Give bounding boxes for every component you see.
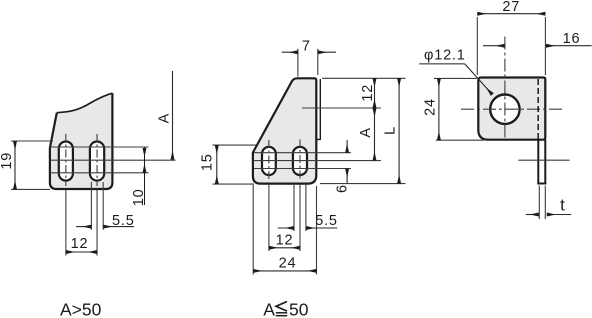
svg-text:50: 50 bbox=[289, 300, 309, 318]
slot hole 1 (middle view) bbox=[262, 147, 276, 175]
slot hole 2 (left view) bbox=[90, 142, 104, 181]
svg-text:A: A bbox=[358, 127, 374, 137]
slot 1 centerline (middle) bbox=[268, 140, 270, 180]
hole bottom reference line (middle) bbox=[254, 168, 351, 170]
slot 2 centerline (middle) bbox=[299, 140, 301, 181]
hole top reference line bbox=[50, 146, 148, 148]
phi 12.1 leader arrow bbox=[465, 64, 493, 95]
flange inner edge line bbox=[319, 79, 321, 140]
left bracket body fill bbox=[50, 93, 113, 189]
dim 5.5 right arrow with tail bbox=[103, 226, 134, 228]
dim 15 top extension bbox=[213, 144, 257, 146]
dim 12 extension left (slot1 center) bbox=[65, 190, 67, 256]
dim 16 right arrow with tail bbox=[546, 45, 592, 47]
svg-text:A: A bbox=[157, 113, 173, 123]
horizontal centerline bbox=[461, 108, 563, 110]
dim 24 line (right view) bbox=[438, 78, 440, 140]
dim 15 line bbox=[216, 145, 218, 184]
svg-text:12: 12 bbox=[276, 232, 294, 248]
dim 7 left arrow bbox=[282, 51, 298, 53]
slot hole 1 (left view) bbox=[59, 142, 73, 181]
bottom extension: slot2 center (middle) bbox=[299, 185, 301, 251]
bend hidden dashed line bbox=[537, 79, 539, 139]
dim 16 left arrow bbox=[483, 45, 505, 47]
dim 7 right extension bbox=[317, 49, 319, 75]
dim 5.5 left arrow (middle) bbox=[278, 227, 294, 229]
hole circle bbox=[490, 95, 519, 124]
dim 12 extension right (slot2 center) bbox=[96, 190, 98, 256]
dim 5.5 extension right (slot2 right edge) bbox=[102, 182, 104, 230]
svg-text:L: L bbox=[383, 126, 399, 135]
dim t left extension bbox=[538, 186, 540, 220]
dim 24 bottom extension (right view) bbox=[436, 139, 484, 141]
svg-text:A: A bbox=[263, 300, 275, 318]
svg-text:24: 24 bbox=[279, 256, 297, 272]
right bottom extension line (middle) bbox=[320, 183, 406, 185]
dim 6 lower arrow bbox=[346, 169, 348, 184]
svg-text:10: 10 bbox=[131, 189, 147, 207]
dim 15 bottom extension bbox=[213, 183, 255, 185]
dim 7 right arrow bbox=[318, 51, 336, 53]
svg-text:24: 24 bbox=[422, 98, 438, 116]
dim 5.5 right arrow (middle) bbox=[306, 227, 337, 229]
flange bottom cap bbox=[537, 183, 546, 185]
hole mid reference line A-level (middle) bbox=[253, 160, 381, 162]
left bracket break-line top edge bbox=[57, 93, 113, 113]
flange right edge bbox=[544, 140, 546, 184]
vertical centerline bbox=[504, 37, 506, 138]
dim t right extension bbox=[544, 186, 546, 220]
svg-text:6: 6 bbox=[334, 184, 350, 193]
svg-text:15: 15 bbox=[200, 153, 216, 171]
dim 7 left extension bbox=[297, 49, 299, 77]
svg-text:19: 19 bbox=[0, 152, 15, 170]
right 12-bottom extension line (middle) bbox=[302, 107, 381, 109]
dim 19 top extension bbox=[11, 140, 53, 142]
dim 24 top extension (right view) bbox=[434, 77, 477, 79]
svg-text:5.5: 5.5 bbox=[112, 213, 135, 229]
svg-text:12: 12 bbox=[360, 84, 376, 102]
dim 19 line bbox=[14, 141, 16, 189]
dim 6 upper arrow bbox=[346, 140, 348, 153]
composed JIS less-than-or-equal symbol bbox=[276, 302, 287, 312]
bottom extension: part left corner (middle) bbox=[252, 185, 254, 275]
dim 27 line bbox=[477, 13, 545, 15]
dim 10 line bbox=[144, 147, 146, 205]
dim A vertical line (middle right) bbox=[374, 108, 376, 161]
slot 2 centerline bbox=[96, 134, 98, 186]
dim 27 right extension bbox=[544, 17, 546, 75]
dim t right arrow with tail bbox=[547, 214, 571, 216]
svg-text:7: 7 bbox=[302, 38, 311, 54]
bottom extension: slot2 right edge (middle) bbox=[305, 185, 307, 231]
svg-text:27: 27 bbox=[502, 0, 520, 15]
svg-text:16: 16 bbox=[563, 31, 581, 47]
bottom extension: part right edge (middle) bbox=[316, 186, 318, 275]
dim L vertical line bbox=[398, 78, 400, 183]
dim 24 line (middle bottom) bbox=[253, 270, 316, 272]
hole mid reference line A-level bbox=[50, 159, 175, 161]
dim 5.5 left arrow bbox=[76, 226, 91, 228]
dim 27 left extension bbox=[476, 17, 478, 75]
flange bottom tick bbox=[316, 139, 321, 141]
flange left edge bbox=[537, 140, 539, 184]
hole top reference line (middle) bbox=[254, 152, 351, 154]
slot hole 2 (middle view) bbox=[293, 147, 307, 175]
dim A arrow (left view) bbox=[172, 71, 174, 160]
bottom extension: slot1 center (middle) bbox=[268, 185, 270, 251]
svg-text:A>50: A>50 bbox=[60, 300, 102, 318]
svg-text:t: t bbox=[560, 196, 565, 215]
flange hole level line bbox=[518, 159, 569, 161]
svg-text:φ12.1: φ12.1 bbox=[424, 48, 466, 64]
svg-text:5.5: 5.5 bbox=[315, 213, 338, 229]
dim 19 bottom extension bbox=[11, 188, 50, 190]
bottom extension: slot2 left edge (middle) bbox=[293, 185, 295, 231]
svg-text:12: 12 bbox=[71, 236, 89, 252]
dim 5.5 extension left (slot2 left edge) bbox=[90, 182, 92, 230]
plate body bbox=[478, 78, 545, 140]
dim 12 vertical line (middle right) bbox=[374, 78, 376, 108]
dim t left arrow bbox=[526, 214, 539, 216]
middle bracket body bbox=[253, 78, 316, 183]
dim 12 line bbox=[66, 251, 97, 253]
phi 12.1 leader underline bbox=[419, 63, 465, 65]
hole bottom reference line bbox=[50, 172, 148, 174]
dim 12 line (middle bottom) bbox=[269, 247, 300, 249]
slot 1 centerline bbox=[65, 134, 67, 186]
right top extension line (middle) bbox=[322, 77, 406, 79]
left bracket outline bbox=[50, 93, 113, 189]
